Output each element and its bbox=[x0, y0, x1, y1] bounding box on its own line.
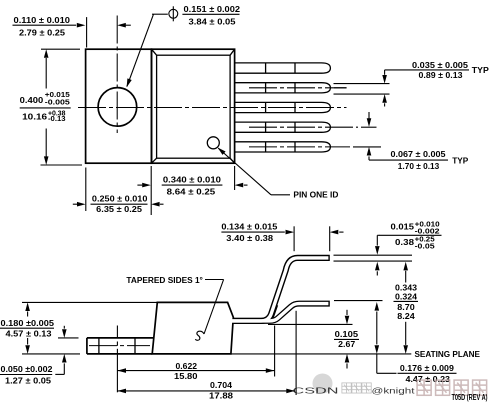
svg-text:3.40 ± 0.38: 3.40 ± 0.38 bbox=[226, 233, 273, 243]
watermark logo circle bbox=[313, 374, 333, 394]
svg-text:1.27 ± 0.05: 1.27 ± 0.05 bbox=[5, 375, 51, 385]
tab centerline bbox=[89, 345, 150, 347]
svg-text:0.38: 0.38 bbox=[395, 237, 414, 247]
tab side outline bbox=[87, 337, 154, 339]
lead short interior bbox=[231, 304, 328, 321]
svg-text:TYP: TYP bbox=[472, 65, 489, 75]
svg-text:T05D (REV A): T05D (REV A) bbox=[452, 392, 488, 402]
dim 0.176 bbox=[334, 301, 457, 385]
svg-text:1.70 ± 0.13: 1.70 ± 0.13 bbox=[398, 161, 440, 171]
svg-text:15.80: 15.80 bbox=[174, 371, 198, 381]
svg-text:@knight: @knight bbox=[372, 386, 416, 396]
tab ticks bbox=[98, 338, 100, 354]
svg-text:CSDN: CSDN bbox=[293, 386, 339, 396]
svg-text:8.64 ± 0.25: 8.64 ± 0.25 bbox=[167, 187, 216, 197]
svg-text:0.035 ± 0.005: 0.035 ± 0.005 bbox=[412, 60, 468, 70]
svg-text:-0.13: -0.13 bbox=[48, 116, 66, 123]
pin one id leader bbox=[216, 146, 338, 200]
svg-text:PIN ONE ID: PIN ONE ID bbox=[293, 190, 338, 200]
dim 0.105 bbox=[268, 310, 359, 369]
svg-text:+0.015: +0.015 bbox=[45, 92, 70, 99]
pin 4 bbox=[234, 122, 330, 132]
svg-text:+0.25: +0.25 bbox=[415, 237, 435, 244]
dim 0.050 tab thickness bbox=[0, 326, 79, 386]
pin 2 centerline bbox=[249, 87, 347, 89]
svg-text:0.134 ± 0.015: 0.134 ± 0.015 bbox=[221, 222, 277, 232]
dim 0.340 body width bbox=[137, 166, 247, 197]
svg-text:0.704: 0.704 bbox=[210, 380, 232, 390]
pin 2 bbox=[234, 83, 330, 93]
svg-text:SEATING PLANE: SEATING PLANE bbox=[415, 349, 481, 359]
svg-text:8.24: 8.24 bbox=[397, 311, 415, 321]
body inner outline bbox=[157, 55, 231, 158]
svg-text:0.324: 0.324 bbox=[395, 291, 417, 301]
lead crossing edge detail bbox=[273, 305, 277, 317]
dim phi 0.151 hole diameter bbox=[124, 4, 240, 88]
svg-text:-0.005: -0.005 bbox=[45, 100, 70, 107]
dim 0.015 lead thickness bbox=[334, 221, 442, 275]
svg-text:0.340 ± 0.010: 0.340 ± 0.010 bbox=[163, 175, 221, 185]
dim 0.110 bbox=[13, 15, 131, 48]
svg-text:+0.010: +0.010 bbox=[415, 222, 440, 229]
svg-text:3.84 ± 0.05: 3.84 ± 0.05 bbox=[189, 16, 236, 26]
svg-text:6.35 ± 0.25: 6.35 ± 0.25 bbox=[96, 204, 142, 214]
pin 3 bbox=[234, 102, 330, 112]
svg-text:0.250 ± 0.010: 0.250 ± 0.010 bbox=[92, 194, 148, 204]
pin 5 centerline bbox=[249, 146, 350, 148]
svg-text:0.050 ±0.002: 0.050 ±0.002 bbox=[1, 364, 53, 374]
svg-text:17.88: 17.88 bbox=[209, 390, 233, 400]
svg-text:0.067 ± 0.005: 0.067 ± 0.005 bbox=[391, 149, 446, 159]
watermark text bbox=[293, 380, 487, 395]
body corner chamfers bbox=[152, 49, 235, 163]
seating plane line bbox=[231, 353, 411, 355]
body outer outline bbox=[152, 49, 235, 163]
svg-text:0.110 ± 0.010: 0.110 ± 0.010 bbox=[14, 15, 71, 25]
pin 5 bbox=[234, 142, 330, 152]
svg-text:-0.05: -0.05 bbox=[415, 244, 435, 251]
pin one id circle bbox=[207, 137, 219, 149]
svg-text:2.79 ± 0.25: 2.79 ± 0.25 bbox=[19, 27, 65, 37]
svg-text:0.015: 0.015 bbox=[391, 221, 415, 231]
tapered sides note bbox=[126, 275, 223, 340]
dim 0.134 bbox=[221, 222, 343, 252]
svg-text:-0.002: -0.002 bbox=[415, 229, 440, 236]
svg-text:0.89 ± 0.13: 0.89 ± 0.13 bbox=[419, 70, 463, 80]
svg-text:0.622: 0.622 bbox=[176, 361, 198, 371]
body side outline bbox=[152, 302, 233, 354]
svg-text:0.151 ± 0.002: 0.151 ± 0.002 bbox=[184, 4, 241, 14]
dim 0.704 bbox=[117, 311, 296, 401]
svg-text:4.47 ± 0.23: 4.47 ± 0.23 bbox=[406, 374, 451, 384]
svg-text:10.16: 10.16 bbox=[22, 112, 47, 122]
lead long (upper) bbox=[233, 258, 330, 321]
svg-text:4.57 ± 0.13: 4.57 ± 0.13 bbox=[6, 329, 52, 339]
tab outline bbox=[86, 49, 152, 163]
lead short (lower) bbox=[233, 304, 330, 321]
svg-text:TYP: TYP bbox=[452, 156, 468, 166]
svg-text:2.67: 2.67 bbox=[338, 339, 355, 349]
dim 0.067 lead pitch bbox=[367, 112, 469, 171]
svg-text:0.180 ±0.005: 0.180 ±0.005 bbox=[1, 318, 55, 328]
pin 4 centerline bbox=[249, 126, 358, 128]
svg-text:TAPERED SIDES 1°: TAPERED SIDES 1° bbox=[126, 275, 203, 285]
dim 0.400 height bbox=[20, 49, 82, 165]
mounting hole bbox=[98, 88, 137, 127]
vertical centerline (hole, side view) bbox=[116, 326, 118, 339]
dim 0.343 / 0.324 bbox=[394, 262, 419, 354]
dim 0.035 lead thickness bbox=[334, 60, 490, 107]
horizontal centerline bbox=[78, 107, 347, 109]
dim 0.250 tab width bbox=[73, 166, 164, 215]
svg-text:0.400: 0.400 bbox=[20, 95, 44, 105]
dim 0.622 bbox=[117, 326, 274, 382]
vertical hole centerline bbox=[116, 16, 118, 134]
dim 0.180 body height bbox=[0, 302, 157, 354]
lead long interior bbox=[231, 258, 328, 321]
pin 1 bbox=[234, 63, 330, 73]
svg-text:0.105: 0.105 bbox=[335, 329, 359, 339]
svg-text:0.176 ± 0.009: 0.176 ± 0.009 bbox=[400, 363, 454, 373]
